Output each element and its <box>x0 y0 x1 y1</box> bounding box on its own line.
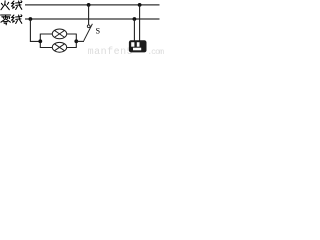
switch S blade <box>84 24 93 41</box>
wire: live drop to socket <box>139 5 141 41</box>
svg-text:.com: .com <box>147 48 164 56</box>
node: junction dot left bar <box>38 39 42 43</box>
svg-text:manfen5: manfen5 <box>88 46 134 56</box>
wire: left branch bar <box>39 34 41 48</box>
label 火线 (live wire) <box>1 1 22 10</box>
wire: neutral drop to socket <box>133 19 135 41</box>
wire: right branch bar <box>75 34 77 48</box>
lamp L1 <box>52 29 66 39</box>
wire: bottom branch right stub <box>67 47 77 49</box>
watermark manfen5.com <box>88 46 165 58</box>
wire: L from neutral down to lamp group <box>30 19 40 41</box>
switch S terminal circle <box>87 25 90 28</box>
wire: bottom branch left stub <box>40 47 52 49</box>
node: junction dot on neutral (socket feed) <box>133 17 137 21</box>
socket slot left <box>131 42 134 47</box>
socket slot right <box>137 42 140 47</box>
node: junction dot on live bus (switch feed) <box>87 3 91 7</box>
socket slot bottom <box>133 48 141 51</box>
wire: live bus <box>25 4 160 6</box>
wire: neutral bus <box>25 18 160 20</box>
node: junction dot on neutral (lamp feed) <box>29 17 33 21</box>
node: junction dot right bar <box>74 39 78 43</box>
socket body <box>129 40 147 52</box>
wire: top branch right stub <box>67 33 77 35</box>
wire: to switch <box>76 40 84 42</box>
svg-text:S: S <box>96 27 101 36</box>
wire: top branch left stub <box>40 33 52 35</box>
lamp L2 <box>52 42 66 52</box>
node: junction dot on live bus (socket feed) <box>138 3 142 7</box>
label 零线 (neutral wire) <box>1 15 22 25</box>
wire: vertical from live bus to switch <box>88 5 90 25</box>
